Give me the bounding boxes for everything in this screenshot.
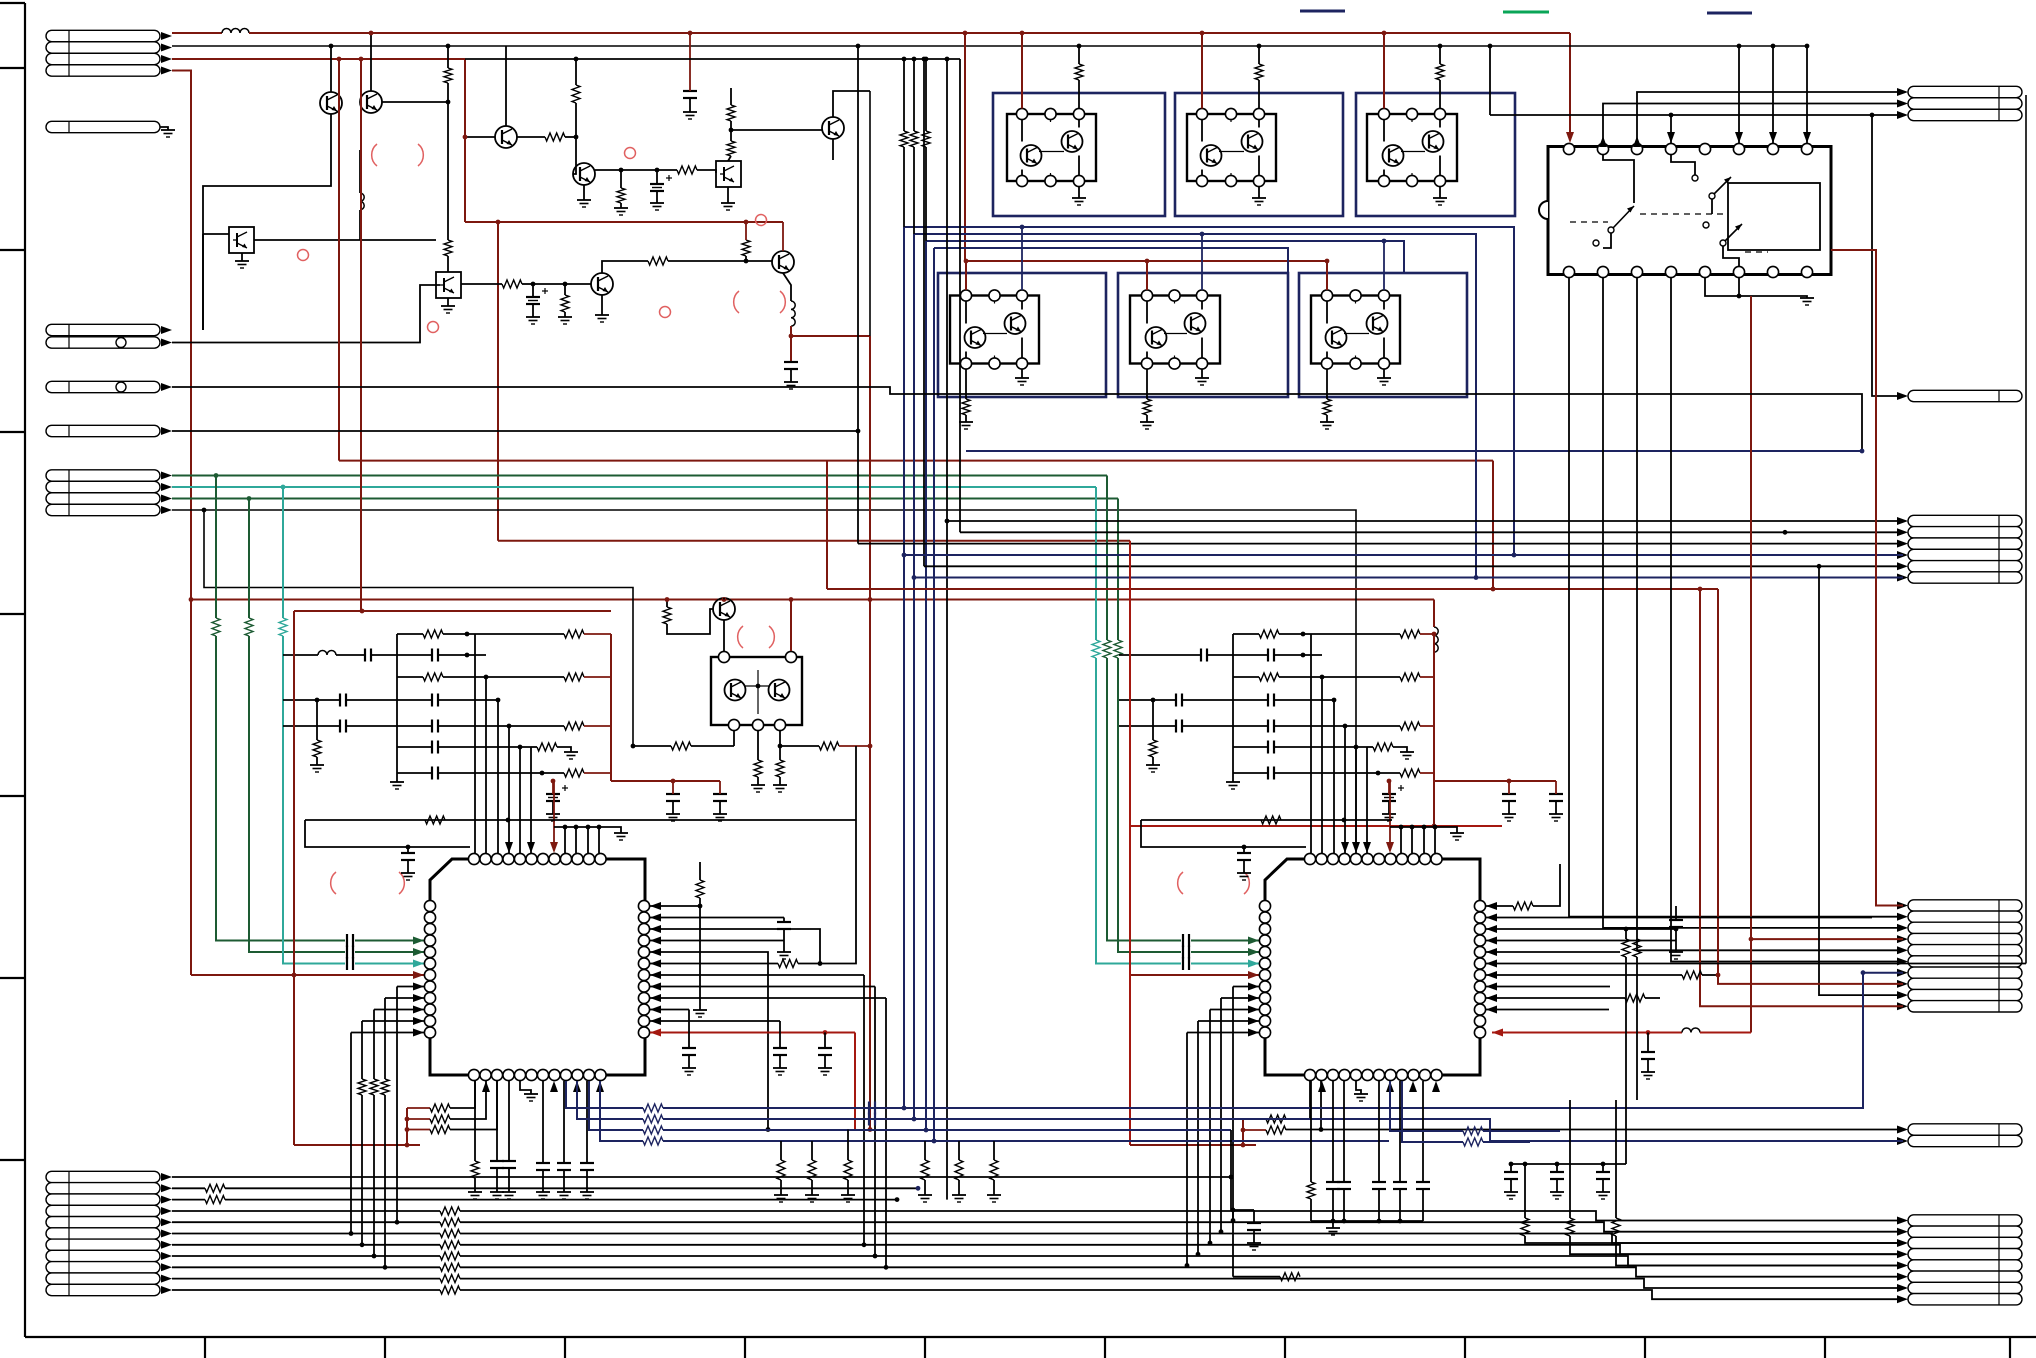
- junction: [1020, 225, 1025, 230]
- wire C3 top: [532, 284, 534, 297]
- U1 top pin 12: [595, 853, 606, 864]
- wire trio a: [361, 1095, 363, 1245]
- relay U3 pin bottom 5: [1699, 266, 1710, 277]
- arrow into relay pin1: [1566, 132, 1574, 143]
- wire trio c top: [384, 998, 386, 1079]
- resistor U1grid c: [423, 673, 443, 681]
- resistor below Q21/Q22 pair: [1323, 399, 1331, 415]
- arrow into U1: [413, 937, 424, 945]
- junction: [916, 1186, 921, 1191]
- relay U3 pin bottom 3: [1631, 266, 1642, 277]
- transistor Q4 (digital): [229, 227, 254, 253]
- junction: [405, 1127, 410, 1132]
- ground under U1r cap: [818, 1067, 832, 1069]
- resistor R4: [572, 85, 580, 103]
- sheet border bottom: [25, 1336, 2036, 1338]
- resistor trio: [381, 1079, 389, 1095]
- arrow up into U2 pin: [1432, 1081, 1440, 1092]
- pack pin 3: [728, 719, 739, 730]
- wire riser b link: [913, 147, 915, 234]
- resistor on green d: [1114, 640, 1122, 658]
- resistor R34: [1625, 994, 1645, 1002]
- U2 left pin 8: [1259, 981, 1270, 992]
- arrow up into U1 pin: [482, 1081, 490, 1092]
- transistor pack Q24/Q25 box: [711, 657, 802, 725]
- wire riser x864: [863, 975, 865, 1245]
- connector CN7: [46, 1171, 160, 1182]
- junction: [1200, 31, 1205, 36]
- capacitor C12: [777, 921, 791, 923]
- connector CN11 pin arrow: [1897, 88, 1908, 96]
- U1grid row y773 l2: [438, 772, 564, 774]
- U2grid row y726 left: [1119, 725, 1176, 727]
- U1grid row y634b: [443, 633, 564, 635]
- ground under Q11/Q12 pair: [1072, 197, 1086, 199]
- U1grid pin riser 2: [497, 700, 499, 853]
- U1 top pin 11: [583, 853, 594, 864]
- wire relay pin6 gnd: [1738, 278, 1740, 296]
- wire U1 resrow1b: [450, 1081, 475, 1108]
- transistor block Q21/Q22 pair: [1299, 273, 1467, 397]
- wire navy riser 4: [933, 248, 935, 1141]
- wire capb gnd: [542, 1170, 544, 1192]
- junction: [1219, 1229, 1224, 1234]
- junction: [1301, 632, 1306, 637]
- resistor R39: [1612, 1218, 1620, 1236]
- junction: [1354, 745, 1359, 750]
- wire U2 r row9: [1486, 997, 1625, 999]
- junction: [1151, 698, 1156, 703]
- ground U1grid ecap: [546, 813, 560, 815]
- ref parens: [734, 291, 739, 313]
- wire Q17/Q18 pair gnd: [1021, 369, 1023, 378]
- pack pin 5: [774, 719, 785, 730]
- wire riser b top: [913, 59, 915, 131]
- junction: [873, 1254, 878, 1259]
- wire capU2 top: [1332, 1081, 1334, 1182]
- wire CN7 row10: [172, 1278, 440, 1280]
- wire U2 se: [1556, 1179, 1558, 1192]
- U1 top pin 6: [526, 853, 537, 864]
- U1grid c10 gnd: [719, 801, 721, 814]
- wire Q5 base: [465, 136, 495, 138]
- wire CN7 row3b: [225, 1199, 897, 1201]
- wire U1 resrow2: [407, 1118, 430, 1120]
- resistor U2grid b: [1400, 630, 1420, 638]
- junction: [729, 128, 734, 133]
- capacitor U1grid c9: [666, 793, 680, 795]
- junction: [189, 597, 194, 602]
- ground U2 se: [1550, 1191, 1564, 1193]
- wire navy row d2: [663, 1140, 1389, 1142]
- ground U1grid rail: [390, 781, 404, 783]
- resistor R42: [1463, 1127, 1483, 1135]
- ground under Q13/Q14 pair: [1252, 197, 1266, 199]
- border tick left 6: [0, 977, 25, 979]
- wire Q23 emitter: [723, 620, 725, 651]
- resistor R41: [1280, 1273, 1300, 1281]
- wire R37 top: [1524, 1164, 1526, 1218]
- U1 left pin 12: [424, 1027, 435, 1038]
- wire black x870 upper: [869, 91, 871, 336]
- border tick bottom 6: [1104, 1337, 1106, 1358]
- wire Q15/Q16 pair res2: [1439, 80, 1441, 109]
- U1grid row y726 maroon: [584, 725, 611, 727]
- wire R14 left: [633, 745, 671, 747]
- connector CN2: [46, 121, 160, 132]
- connector CN5: [46, 425, 160, 436]
- ground U1grid bundle: [614, 832, 628, 834]
- junction: [518, 745, 523, 750]
- U1grid row y700 l3: [438, 699, 498, 701]
- connector CN7 pin arrow: [161, 1241, 172, 1249]
- wire pack pin5 down: [779, 731, 781, 746]
- U2 bottom pin 4: [1339, 1069, 1350, 1080]
- resistor R21: [430, 1115, 450, 1123]
- U1 bottom pin 2: [480, 1069, 491, 1080]
- resistor R25: [696, 880, 704, 898]
- transistor Q25: [769, 680, 790, 701]
- wire Q4 right: [254, 239, 436, 241]
- arrow into U1: [413, 971, 424, 979]
- wire navy feed D pin3: [1021, 227, 1023, 290]
- U1 bottom pin 10: [572, 1069, 583, 1080]
- junction: [1331, 1219, 1336, 1224]
- ground U2grid c9: [1502, 813, 1516, 815]
- U2 right pin 5: [1474, 946, 1485, 957]
- arrow into U1 r7: [650, 971, 661, 979]
- wire C17 top: [1253, 1210, 1255, 1223]
- ground under C4: [784, 381, 798, 383]
- junction: [1432, 632, 1437, 637]
- U1 right pin 11: [638, 1015, 649, 1026]
- U1grid row y655 l3: [371, 654, 432, 656]
- junction: [360, 609, 365, 614]
- resistor U1grid g: [537, 743, 557, 751]
- wire CN7 row1: [172, 1176, 1231, 1178]
- wire capb top: [586, 1081, 588, 1163]
- U1 left pin 2: [424, 912, 435, 923]
- wire cap feed b: [779, 1021, 781, 1048]
- resistor R40: [1307, 1182, 1315, 1199]
- arrow into U2 r10: [1486, 1006, 1497, 1014]
- connector CN14 pin arrow: [1897, 902, 1908, 910]
- wire maroon x1751: [1750, 296, 1752, 1033]
- resistor bank2: [955, 1160, 963, 1180]
- arrow into U2 r7: [1486, 971, 1497, 979]
- U2 right pin 4: [1474, 935, 1485, 946]
- connector CN1 pin arrow: [161, 55, 172, 63]
- connector CN13 pin arrow: [1897, 562, 1908, 570]
- U1grid row y655 l4: [438, 654, 486, 656]
- resistor R35: [1622, 939, 1630, 957]
- U2 left pin 2: [1259, 912, 1270, 923]
- legend wire color 3: [1707, 12, 1752, 15]
- arrow into U2 r8: [1486, 983, 1497, 991]
- U2 left pin 11: [1259, 1015, 1270, 1026]
- wire capU2 bot: [1332, 1189, 1334, 1221]
- resistor bank1: [844, 1160, 852, 1180]
- wire navy feed F pin3: [1383, 241, 1385, 290]
- arrow into U1: [413, 1017, 424, 1025]
- wire teal drop2: [283, 636, 345, 964]
- resistor R22: [430, 1126, 450, 1134]
- connector CN13 pin arrow: [1897, 574, 1908, 582]
- wire Q3 gnd stub: [447, 298, 449, 306]
- wire U2 resrow1: [1243, 1118, 1266, 1120]
- arrow into U2 r5: [1486, 948, 1497, 956]
- wire cap gnd: [779, 1055, 781, 1068]
- capacitor U2grid c9: [1502, 793, 1516, 795]
- junction: [1870, 113, 1875, 118]
- U1 bottom pin 7: [537, 1069, 548, 1080]
- wire teal into U1: [355, 963, 424, 965]
- resistor bank2: [921, 1160, 929, 1180]
- junction: [1410, 825, 1415, 830]
- junction: [1737, 294, 1742, 299]
- connector CN12: [1908, 390, 2022, 401]
- transistor Q9: [591, 273, 613, 295]
- wire riser x351: [350, 1033, 352, 1234]
- wire U2 left riser: [1220, 998, 1222, 1232]
- resistor on riser a: [900, 131, 908, 147]
- wire C15 top: [1675, 906, 1677, 914]
- U1 left pin 6: [424, 958, 435, 969]
- wire R13 top: [666, 600, 668, 608]
- junction: [1861, 970, 1866, 975]
- U1grid c10 wire: [719, 781, 721, 794]
- U2grid row y677: [1233, 676, 1259, 678]
- resistor R44: [205, 1184, 225, 1192]
- ground bank1: [841, 1194, 855, 1196]
- arrow into U1 r10: [650, 1006, 661, 1014]
- junction: [531, 282, 536, 287]
- wire C17 gnd: [1253, 1230, 1255, 1243]
- capacitor C15: [1669, 919, 1683, 921]
- wire CN7 row8: [172, 1255, 440, 1257]
- resistor U1grid y820: [425, 816, 445, 824]
- relay U3 pin top 4: [1665, 143, 1676, 154]
- wire maroon to CN14 row4: [1751, 938, 1903, 940]
- wire navy riser 3: [925, 241, 927, 1130]
- junction: [597, 825, 602, 830]
- wire row3 to CN12: [1872, 115, 1903, 396]
- junction: [1382, 239, 1387, 244]
- U2grid bundle drop: [1411, 827, 1413, 853]
- junction: [563, 282, 568, 287]
- connector CN7 pin arrow: [161, 1252, 172, 1260]
- arrow into U2 r3: [1486, 925, 1497, 933]
- wire bus x947: [946, 59, 948, 1200]
- wire CN11 row3 src: [1489, 46, 1491, 115]
- U2 top pin 10: [1408, 853, 1419, 864]
- junction: [563, 825, 568, 830]
- junction: [1387, 779, 1392, 784]
- U1 top pin 5: [514, 853, 525, 864]
- U1grid c9 gnd: [672, 801, 674, 814]
- wire riser a top: [903, 59, 905, 131]
- junction: [463, 135, 468, 140]
- wire maroon long bus: [191, 599, 1434, 601]
- U1 right pin 10: [638, 1004, 649, 1015]
- wire to R10: [533, 283, 565, 285]
- ground under Q17/Q18 pair: [1015, 377, 1029, 379]
- junction: [922, 57, 927, 62]
- relay U3 pin top 3: [1631, 143, 1642, 154]
- U1grid pin riser 3: [508, 726, 510, 853]
- wire Q23 top: [723, 598, 725, 600]
- ground U2grid e: [1146, 764, 1160, 766]
- wire U1 gnd stub: [520, 1081, 531, 1094]
- wire maroon x1493: [1492, 461, 1494, 589]
- resistor R15: [754, 760, 762, 777]
- relay U3 pin top 5: [1699, 143, 1710, 154]
- U2 left pin 10: [1259, 1004, 1270, 1015]
- border tick bottom 5: [924, 1337, 926, 1358]
- connector CN4 marker: [116, 382, 126, 392]
- U2 top pin 3: [1327, 853, 1338, 864]
- junction: [446, 100, 451, 105]
- connector CN7 pin arrow: [161, 1218, 172, 1226]
- U2grid row y700 l2: [1182, 699, 1268, 701]
- junction: [1342, 818, 1347, 823]
- wire maroon U2 top rail: [1130, 825, 1502, 827]
- wire R38 out: [1570, 1236, 1903, 1254]
- connector CN14 pin arrow: [1897, 913, 1908, 921]
- junction: [329, 44, 334, 49]
- wire navy riser 1: [903, 227, 905, 1108]
- U2grid ecap gnd: [1388, 801, 1390, 814]
- wire riser x875: [874, 987, 876, 1257]
- ground U2 bottom: [1354, 1093, 1368, 1095]
- ground R27: [468, 1191, 482, 1193]
- wire U2 r row1: [1486, 905, 1513, 907]
- wire U2 r row5: [1486, 951, 1620, 953]
- capacitor under U2b: [1393, 1181, 1407, 1183]
- connector CN7 pin arrow: [161, 1263, 172, 1271]
- wire R39 out: [1616, 1236, 1903, 1266]
- junction: [1185, 1263, 1190, 1268]
- connector CN1 pin arrow: [161, 32, 172, 40]
- wire capU2b top: [1378, 1081, 1380, 1182]
- U2 right pin 6: [1474, 958, 1485, 969]
- capacitor C2: [683, 90, 697, 92]
- U1 bottom pin 4: [503, 1069, 514, 1080]
- U1grid rail: [396, 634, 398, 773]
- transistor Q1: [320, 92, 342, 114]
- connector CN16 pin arrow: [1897, 1284, 1908, 1292]
- wire Q13/Q14 pair res: [1258, 46, 1260, 64]
- junction: [1332, 698, 1337, 703]
- junction: [1196, 1252, 1201, 1257]
- resistor U1grid a: [423, 630, 443, 638]
- connector CN14 pin arrow: [1897, 924, 1908, 932]
- arrow into U1 r1: [650, 902, 661, 910]
- U1grid row y726 left: [283, 725, 340, 727]
- U2grid row y655 left: [1119, 654, 1201, 656]
- resistor R1: [444, 68, 452, 83]
- U2grid ecap wire: [1388, 781, 1390, 794]
- U1grid ecap wire: [552, 781, 554, 794]
- wire Q17/Q18 pair res gnd: [965, 415, 967, 422]
- capacitor under U1: [502, 1160, 516, 1162]
- wire maroon feed Q11/Q12 pair: [1021, 33, 1023, 109]
- arrow into U1 r2: [650, 914, 661, 922]
- wire Q19/Q20 pair res gnd: [1146, 415, 1148, 422]
- wire C3 gnd: [532, 304, 534, 317]
- wire Q11/Q12 pair res: [1078, 46, 1080, 64]
- U1grid bundle drop: [598, 827, 600, 853]
- U2grid res e wire: [1152, 700, 1154, 740]
- junction: [465, 653, 470, 658]
- U2 bottom pin 10: [1408, 1069, 1419, 1080]
- ground under relay: [1800, 297, 1814, 299]
- U1grid maroon rail: [610, 634, 612, 781]
- junction: [655, 168, 660, 173]
- U2grid row y747 gnd wire: [1393, 747, 1407, 752]
- ground capb: [580, 1191, 594, 1193]
- arrow up into U1 pin: [596, 1081, 604, 1092]
- junction: [1208, 1241, 1213, 1246]
- wire CN7 row2a: [172, 1187, 205, 1189]
- wire capU2 bot: [1343, 1189, 1345, 1221]
- connector CN7 pin arrow: [161, 1230, 172, 1238]
- wire U1 resrow1: [407, 1107, 430, 1109]
- U2grid maroon y781: [1434, 780, 1556, 782]
- ground R25 col: [693, 1009, 707, 1011]
- junction: [945, 519, 950, 524]
- pack pin 2: [785, 651, 796, 662]
- U2 right pin 12: [1474, 1027, 1485, 1038]
- ground bank2: [987, 1194, 1001, 1196]
- wire U2 se: [1510, 1179, 1512, 1192]
- U2 bottom pin 2: [1316, 1069, 1327, 1080]
- border tick left 3: [0, 431, 25, 433]
- wire U2 r row7: [1486, 974, 1682, 976]
- wire cap feed c: [824, 1033, 826, 1049]
- wire bus to relay pin6: [1738, 46, 1740, 143]
- wire R40 bot: [1310, 1199, 1312, 1221]
- arrow U1grid pin: [550, 842, 558, 853]
- sheet border left: [24, 3, 26, 1337]
- capacitor U1grid s7: [431, 741, 433, 754]
- wire maroon feed Q15/Q16 pair: [1383, 33, 1385, 109]
- wire C12 gnd: [783, 941, 785, 953]
- junction: [722, 597, 727, 602]
- U2 top pin 8: [1385, 853, 1396, 864]
- U1 bottom pin 1: [468, 1069, 479, 1080]
- U2 right pin 7: [1474, 969, 1485, 980]
- U1 right pin 3: [638, 923, 649, 934]
- junction: [383, 1265, 388, 1270]
- arrow U1grid pin6: [527, 842, 535, 853]
- connector CN7 pin arrow: [161, 1196, 172, 1204]
- wire maroon row3: [172, 58, 465, 60]
- wire to CN13 row2: [960, 531, 1903, 533]
- wire U1 r row8: [650, 986, 875, 988]
- U1grid row y747 gnd wire: [557, 747, 571, 752]
- wire U1 r row10: [650, 1009, 689, 1011]
- wire R26 right: [798, 746, 856, 964]
- resistor R6: [677, 166, 697, 174]
- resistor U1grid f: [564, 722, 584, 730]
- U2 top pin 12: [1431, 853, 1442, 864]
- junction: [1698, 587, 1703, 592]
- connector CN4: [46, 381, 160, 392]
- wire C12 link2: [783, 929, 785, 941]
- wire capU2b top: [1399, 1081, 1401, 1182]
- junction: [932, 1139, 937, 1144]
